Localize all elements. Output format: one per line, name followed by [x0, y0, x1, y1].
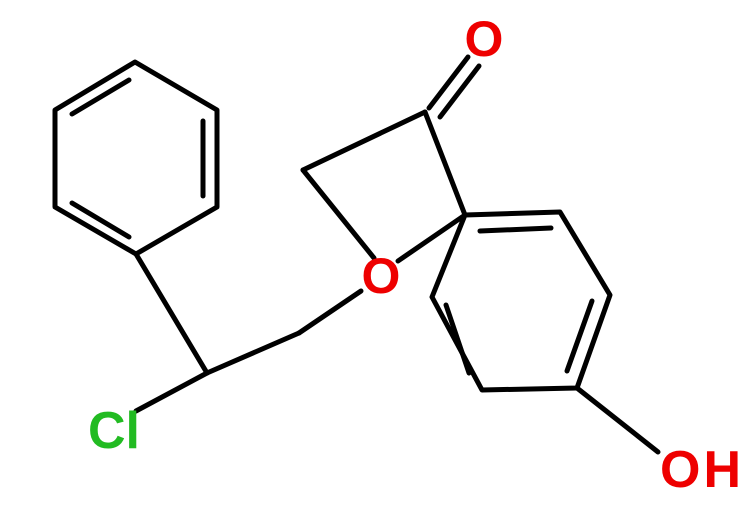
- bond benzylic C to CH2: [207, 333, 299, 373]
- bond ring A to benzylic carbon: [136, 254, 207, 373]
- carbonyl C=O double bond line 2: [440, 66, 479, 117]
- bond alpha CH2 to O ether: [303, 170, 374, 258]
- bond carbonyl C to CH2 (alpha): [303, 112, 425, 170]
- svg-text:OH: OH: [660, 441, 743, 499]
- bond ring B to OH: [577, 388, 658, 452]
- carbonyl C=O double bond line 1: [429, 57, 468, 108]
- bond carbonyl C to ring B: [425, 112, 465, 215]
- svg-text:Cl: Cl: [88, 402, 140, 460]
- ring A inner double bond (right edge): [201, 121, 206, 196]
- bond O ether to ring B: [398, 215, 465, 261]
- ring B inner double bond (top edge): [480, 228, 551, 231]
- ring A inner double bond (upper-left edge): [72, 80, 129, 114]
- svg-text:O: O: [465, 11, 504, 67]
- benzene ring B (hydroxyphenyl, lower right): [432, 212, 610, 390]
- bond CH2-O ether: [299, 291, 361, 333]
- svg-text:O: O: [362, 248, 401, 304]
- ring B inner double bond (right edge): [567, 301, 592, 371]
- ring B inner double bond (lower-left edge): [446, 305, 469, 373]
- ring A inner double bond (lower-left edge): [72, 203, 129, 237]
- benzene ring A (chlorophenyl, upper left): [55, 62, 217, 254]
- bond C-Cl: [136, 373, 207, 411]
